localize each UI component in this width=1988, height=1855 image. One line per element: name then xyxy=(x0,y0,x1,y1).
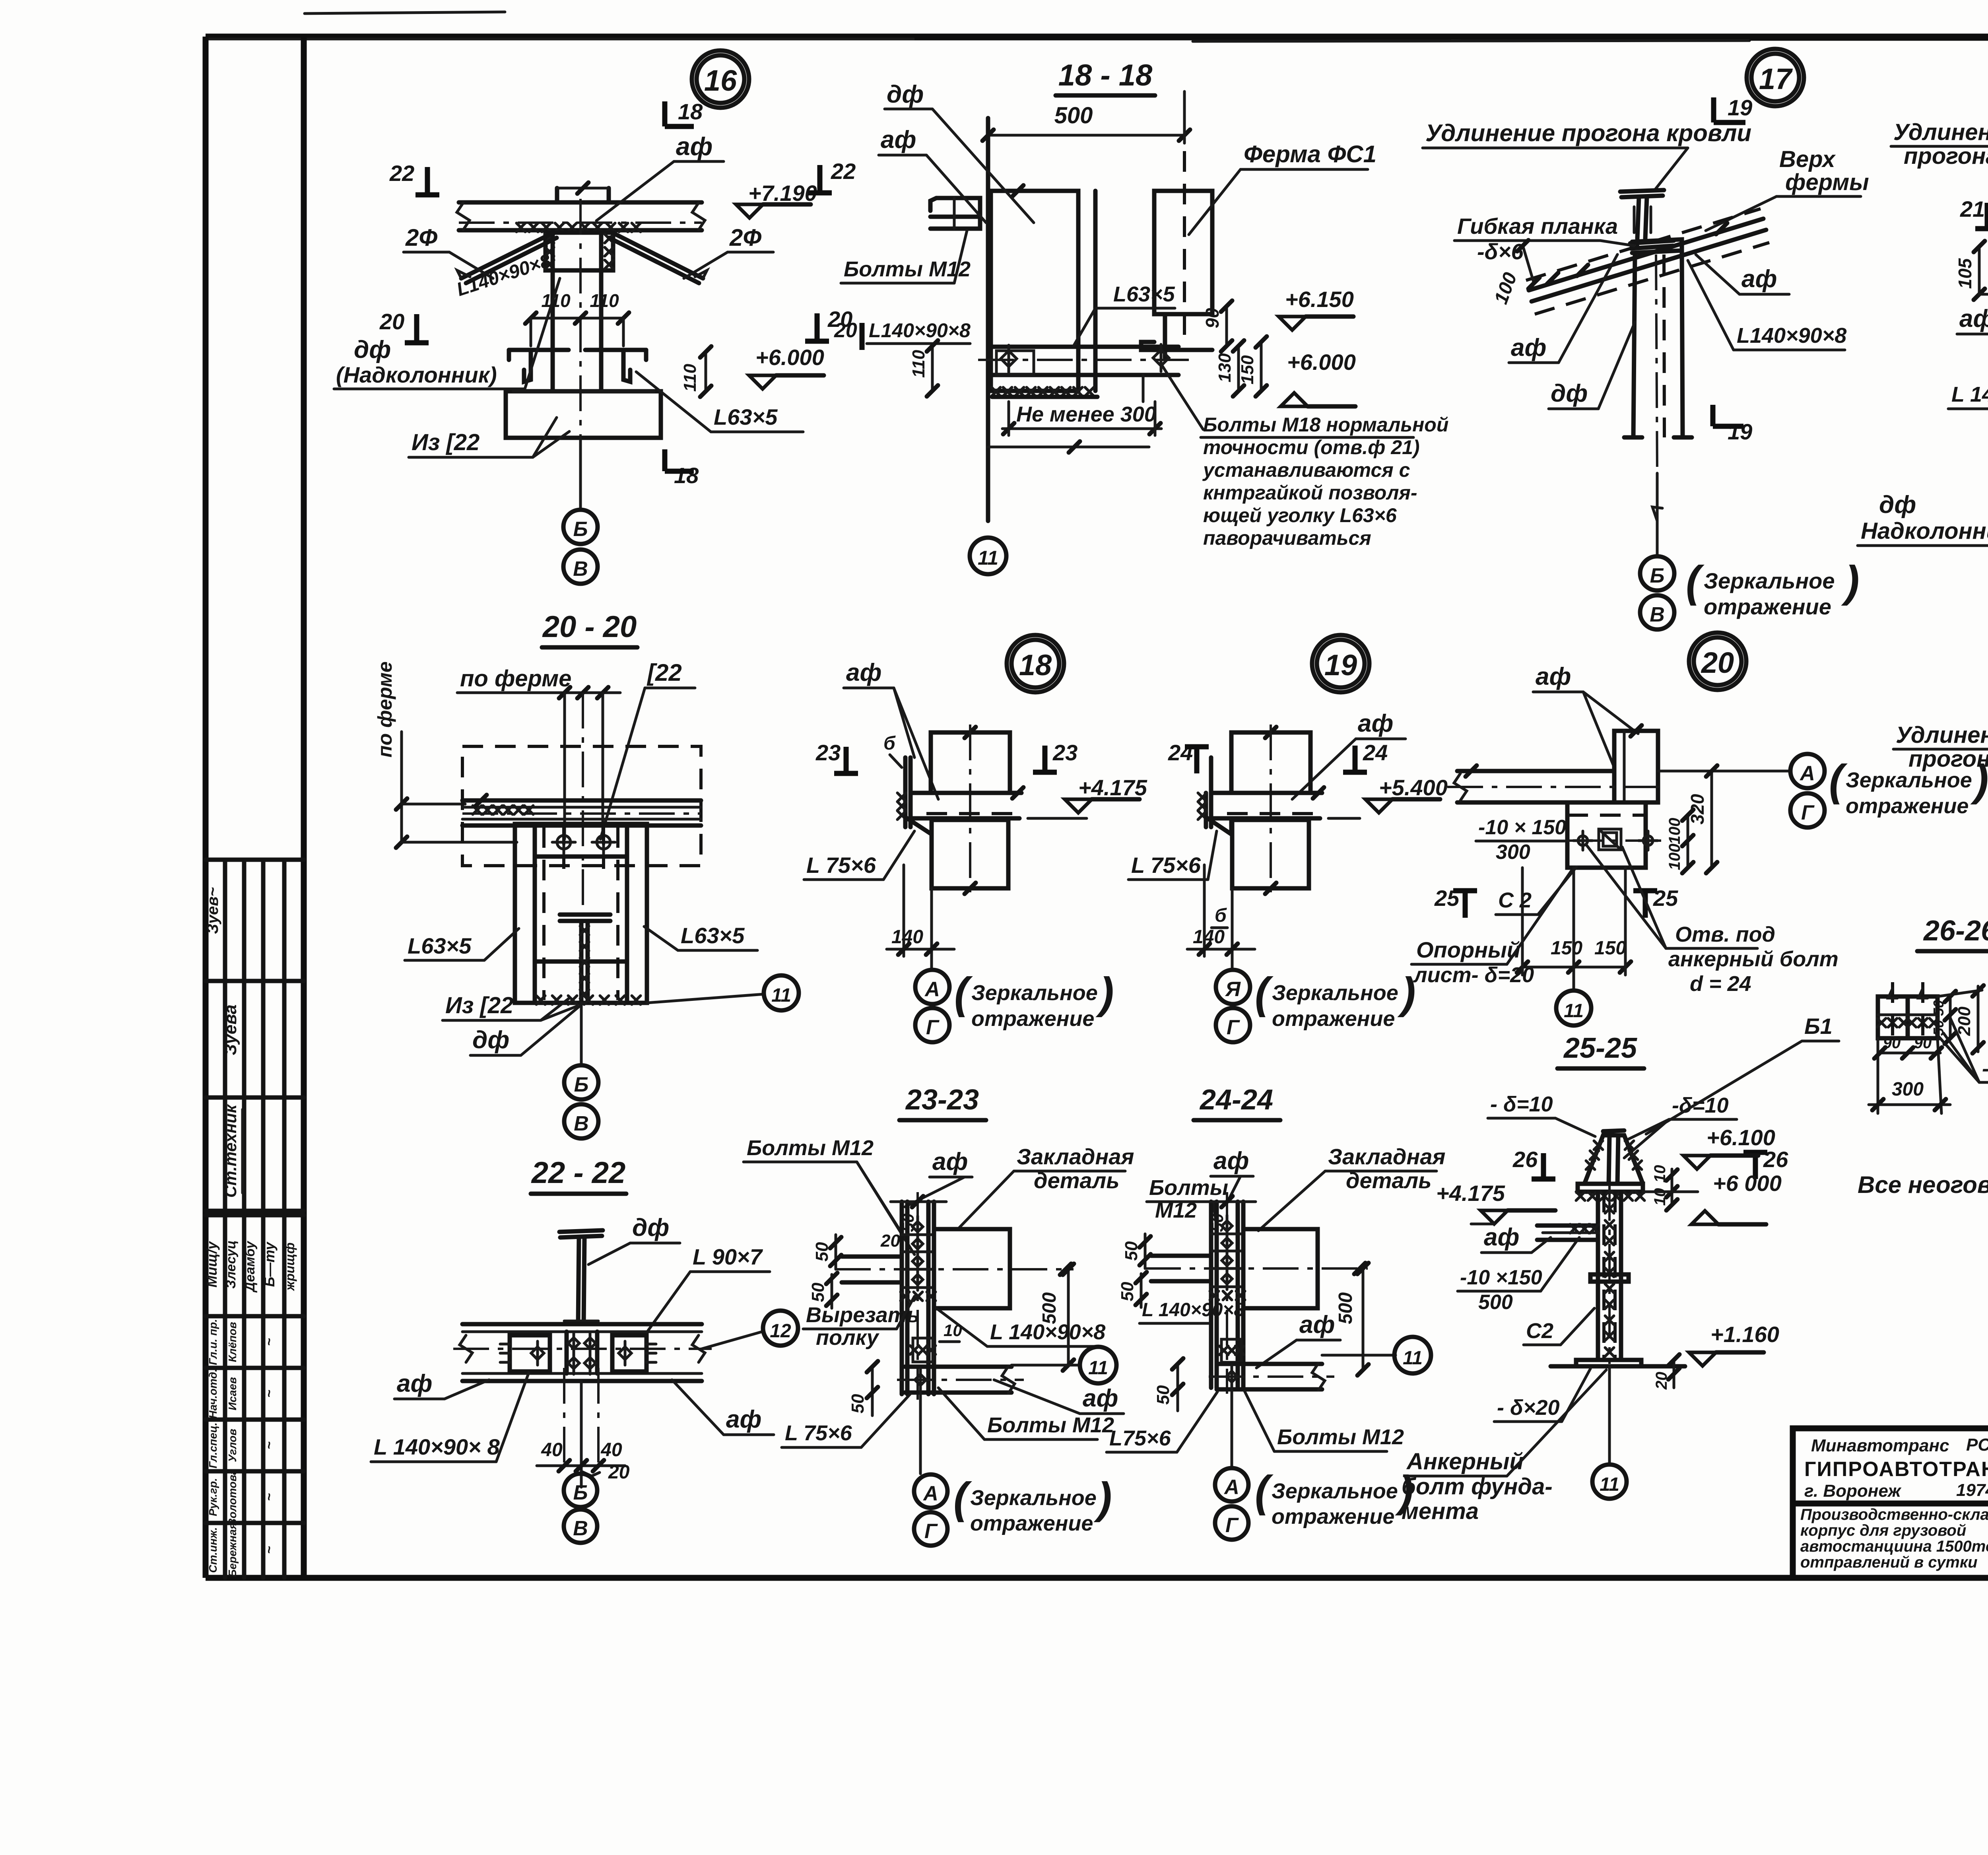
svg-text:дф: дф xyxy=(354,336,391,363)
svg-text:11: 11 xyxy=(1403,1348,1423,1369)
svg-text:Гл.спец.: Гл.спец. xyxy=(207,1422,219,1468)
svg-text:20 - 20: 20 - 20 xyxy=(542,610,637,644)
svg-text:~: ~ xyxy=(262,1441,277,1449)
svg-text:лист- δ=20: лист- δ=20 xyxy=(1413,963,1534,987)
node 19 thin plate xyxy=(1204,793,1208,827)
node 18 beam xyxy=(911,791,1021,795)
svg-text:23: 23 xyxy=(815,740,841,765)
node 20 circle 11 xyxy=(1573,868,1575,990)
svg-text:Закладная: Закладная xyxy=(1328,1144,1445,1169)
svg-text:Клёпов: Клёпов xyxy=(226,1322,239,1362)
svg-text:Болты: Болты xyxy=(1149,1176,1228,1200)
23-23 beam from left xyxy=(842,1255,902,1259)
svg-text:Бережная: Бережная xyxy=(226,1523,239,1577)
svg-text:11: 11 xyxy=(978,547,998,569)
25-25 gusset trapezoid xyxy=(1584,1135,1643,1184)
svg-text:отражение: отражение xyxy=(1704,594,1831,619)
node 20 beam left xyxy=(1457,769,1614,773)
node 16 diagonal braces xyxy=(461,233,553,278)
svg-text:Ст.инж.: Ст.инж. xyxy=(207,1527,219,1573)
svg-text:фермы: фермы xyxy=(1785,169,1869,195)
svg-text:11: 11 xyxy=(1600,1474,1619,1495)
svg-text:Удлинение: Удлинение xyxy=(1893,119,1988,145)
svg-text:22: 22 xyxy=(389,161,414,186)
20-20 channel bracket xyxy=(515,824,647,1003)
24-24 column xyxy=(1209,1202,1213,1388)
node 16 angle seats L63x5 xyxy=(509,348,569,352)
node 16 pedestal xyxy=(506,391,661,438)
svg-text:50: 50 xyxy=(848,1394,868,1413)
svg-text:Г: Г xyxy=(1225,1514,1239,1537)
svg-text:дф: дф xyxy=(887,81,924,108)
node 19 beam xyxy=(1211,791,1322,795)
23-23 column plates bolts xyxy=(902,1233,934,1236)
18-18 top hook bracket xyxy=(930,198,980,229)
svg-text:500: 500 xyxy=(1478,1291,1513,1314)
svg-text:отражение: отражение xyxy=(1272,1505,1394,1529)
20-20 chord plates band xyxy=(462,798,701,803)
25-25 bearing plate xyxy=(1578,1184,1643,1192)
svg-text:22: 22 xyxy=(831,159,856,184)
svg-text:Производственно-складской: Производственно-складской xyxy=(1800,1506,1988,1523)
24-24 bottom angle weld xyxy=(1221,1339,1241,1362)
svg-text:110: 110 xyxy=(680,363,700,392)
svg-text:18: 18 xyxy=(678,99,703,124)
scan noise top edge xyxy=(914,35,1451,41)
svg-text:А: А xyxy=(922,1482,938,1505)
svg-text:Б—ту: Б—ту xyxy=(261,1241,278,1287)
svg-text:50: 50 xyxy=(1930,1000,1947,1016)
svg-text:Зуев~: Зуев~ xyxy=(204,887,221,934)
svg-text:устанавливаются с: устанавливаются с xyxy=(1202,459,1410,481)
svg-text:~: ~ xyxy=(262,1546,277,1554)
25-25 circle 11 xyxy=(1608,1366,1611,1464)
svg-text:150: 150 xyxy=(1551,938,1582,959)
svg-text:500: 500 xyxy=(1039,1292,1060,1324)
22-22 circle 12 xyxy=(702,1331,763,1349)
svg-text:L 140×90× 8: L 140×90× 8 xyxy=(374,1434,500,1459)
18-18 bottom seat xyxy=(992,345,1178,349)
22-22 axis circles xyxy=(564,1474,597,1507)
23-23 bottom beam stub xyxy=(905,1365,1011,1369)
svg-text:Исаев: Исаев xyxy=(226,1377,239,1410)
svg-text:+6.100: +6.100 xyxy=(1706,1125,1775,1150)
svg-text:Нач.отд.: Нач.отд. xyxy=(207,1369,219,1419)
svg-text:Отв. под: Отв. под xyxy=(1675,923,1775,946)
24-24 axis circles A G xyxy=(1231,1389,1233,1467)
svg-text:40: 40 xyxy=(541,1439,563,1461)
svg-text:аф: аф xyxy=(1741,265,1777,293)
svg-text:11: 11 xyxy=(1088,1358,1108,1379)
svg-text:11: 11 xyxy=(771,985,791,1006)
svg-text:[22: [22 xyxy=(646,659,682,686)
svg-text:корпус для грузовой: корпус для грузовой xyxy=(1800,1522,1966,1539)
svg-text:+6.000: +6.000 xyxy=(1287,350,1356,375)
svg-text:+6.150: +6.150 xyxy=(1285,287,1354,312)
svg-text:19: 19 xyxy=(1324,649,1357,682)
svg-text:Деамбу: Деамбу xyxy=(243,1240,258,1293)
svg-text:точности (отв.ф 21): точности (отв.ф 21) xyxy=(1203,436,1420,458)
svg-text:40: 40 xyxy=(600,1439,622,1461)
svg-text:L 140×90×8: L 140×90×8 xyxy=(1951,383,1988,406)
svg-text:Опорный: Опорный xyxy=(1416,937,1520,962)
svg-text:11: 11 xyxy=(1564,1000,1584,1022)
svg-text:L75×6: L75×6 xyxy=(1109,1426,1171,1450)
svg-text:L 90×7: L 90×7 xyxy=(693,1244,763,1269)
node 19 column lower xyxy=(1232,820,1309,888)
svg-text:26-26: 26-26 xyxy=(1923,915,1988,947)
svg-text:L63×5: L63×5 xyxy=(714,404,778,429)
svg-text:отражение: отражение xyxy=(1272,1007,1395,1031)
svg-text:Болты М12: Болты М12 xyxy=(747,1136,874,1160)
node 19 axis circles A G xyxy=(1231,956,1234,970)
svg-text:В: В xyxy=(573,1517,588,1540)
svg-text:19: 19 xyxy=(1728,419,1752,444)
26-26 plates xyxy=(1878,996,1938,1038)
svg-text:+4.175: +4.175 xyxy=(1078,775,1147,800)
node 18 axis circles A G xyxy=(930,956,933,970)
svg-text:Гл.и. пр.: Гл.и. пр. xyxy=(207,1319,219,1365)
svg-text:жрищф: жрищф xyxy=(283,1243,297,1292)
svg-text:~: ~ xyxy=(262,1390,277,1398)
left stamp strip table xyxy=(206,858,304,862)
svg-text:105: 105 xyxy=(1955,258,1975,289)
node 16 column stub above beam xyxy=(555,188,559,202)
node 20 corner plate xyxy=(1567,802,1646,868)
svg-text:Г: Г xyxy=(1227,1016,1240,1039)
node 17 bubble xyxy=(1747,49,1804,106)
svg-text:Болты M12: Болты M12 xyxy=(987,1413,1114,1437)
24-24 bottom beam stub xyxy=(1217,1362,1322,1366)
svg-text:аф: аф xyxy=(1083,1385,1118,1412)
18-18 truss FS1 xyxy=(1154,191,1212,314)
svg-text:Зеркальное: Зеркальное xyxy=(1846,768,1972,792)
22-22 T stub above xyxy=(559,1230,603,1232)
svg-text:Все неоговоренные швы: Все неоговоренные швы xyxy=(1858,1171,1988,1198)
svg-text:2Ф: 2Ф xyxy=(405,224,437,251)
26-26 dims right 50 50 200 xyxy=(1949,996,1952,1038)
svg-text:+6.000: +6.000 xyxy=(755,345,824,370)
svg-text:А: А xyxy=(1223,1476,1239,1499)
svg-text:Минавтотранс: Минавтотранс xyxy=(1811,1436,1949,1455)
stamp strip inner column lines xyxy=(223,860,227,1578)
svg-text:18: 18 xyxy=(674,463,699,488)
svg-text:С2: С2 xyxy=(1526,1319,1553,1343)
svg-text:Болты M12: Болты M12 xyxy=(844,257,971,281)
svg-text:26: 26 xyxy=(1512,1147,1538,1172)
svg-text:Зеркальное: Зеркальное xyxy=(1704,568,1835,593)
22-22 clip angles xyxy=(510,1335,550,1371)
svg-text:Анкерный: Анкерный xyxy=(1406,1449,1524,1474)
node 18 bubble xyxy=(1007,635,1064,692)
20-20 axis circles xyxy=(580,1003,583,1065)
23-23 axis circles A G xyxy=(919,1393,922,1474)
svg-text:С 2: С 2 xyxy=(1498,888,1532,912)
24-24 beam from left xyxy=(1151,1254,1211,1258)
svg-text:отправлений в сутки: отправлений в сутки xyxy=(1800,1554,1978,1571)
svg-text:Не менее 300: Не менее 300 xyxy=(1016,402,1156,426)
svg-text:300: 300 xyxy=(1496,841,1530,864)
svg-text:24: 24 xyxy=(1363,740,1388,765)
svg-text:Б: Б xyxy=(573,518,588,541)
svg-text:по ферме: по ферме xyxy=(374,661,396,758)
svg-text:аф: аф xyxy=(1536,663,1571,690)
svg-text:б: б xyxy=(1215,905,1227,926)
svg-text:500: 500 xyxy=(1054,103,1093,128)
svg-text:20: 20 xyxy=(608,1462,630,1483)
svg-text:А: А xyxy=(924,978,940,1001)
svg-text:Удлинение: Удлинение xyxy=(1896,722,1988,748)
svg-text:Зеркальное: Зеркальное xyxy=(1272,1479,1398,1503)
svg-text:20: 20 xyxy=(880,1231,900,1251)
svg-text:50: 50 xyxy=(812,1242,832,1261)
svg-text:L 75×6: L 75×6 xyxy=(1131,853,1201,878)
svg-text:Б: Б xyxy=(1650,564,1665,587)
svg-text:мента: мента xyxy=(1402,1498,1479,1524)
svg-text:90: 90 xyxy=(1883,1034,1901,1052)
node 20 axis circles A G right xyxy=(1658,770,1789,773)
svg-text:19: 19 xyxy=(1728,95,1752,120)
svg-text:~: ~ xyxy=(262,1493,277,1501)
25-25 mid clamp xyxy=(1590,1274,1629,1282)
23-23 embedded plate rect xyxy=(934,1229,1010,1308)
18-18 axis circle 11 xyxy=(970,538,1006,574)
svg-text:10: 10 xyxy=(944,1321,962,1340)
svg-text:+6 000: +6 000 xyxy=(1713,1171,1782,1196)
svg-text:L 140×90×8: L 140×90×8 xyxy=(1142,1299,1244,1321)
svg-text:Углов: Углов xyxy=(226,1429,239,1462)
svg-text:Мищ/у: Мищ/у xyxy=(204,1241,220,1288)
svg-text:Зуева: Зуева xyxy=(221,1004,240,1055)
node 19 column upper xyxy=(1231,732,1310,793)
svg-text:130: 130 xyxy=(1215,353,1235,383)
svg-text:аф: аф xyxy=(846,659,881,686)
svg-text:А: А xyxy=(1799,762,1815,785)
node 18 column upper xyxy=(931,732,1010,793)
svg-text:Закладная: Закладная xyxy=(1017,1144,1134,1169)
svg-text:90: 90 xyxy=(1914,1034,1932,1052)
node 17 purlin stub I-beam xyxy=(1620,190,1664,192)
svg-text:L140×90×8: L140×90×8 xyxy=(1737,324,1846,348)
svg-text:24: 24 xyxy=(1168,740,1193,765)
svg-text:аф: аф xyxy=(1213,1147,1249,1175)
node 16 axis circles xyxy=(579,438,582,510)
svg-text:18 - 18: 18 - 18 xyxy=(1058,58,1153,92)
svg-text:Золотова: Золотова xyxy=(226,1469,239,1526)
svg-text:12: 12 xyxy=(770,1321,791,1342)
20-20 inner T beam section xyxy=(560,913,610,917)
svg-text:150: 150 xyxy=(1238,355,1257,385)
25-25 af bracket xyxy=(1537,1224,1598,1228)
svg-text:Я: Я xyxy=(1225,978,1241,1001)
svg-text:отражение: отражение xyxy=(970,1511,1093,1535)
18-18 column web xyxy=(986,118,990,521)
svg-text:17: 17 xyxy=(1759,62,1793,95)
20-20 dashed chord outline xyxy=(462,746,701,866)
svg-text:20: 20 xyxy=(379,309,404,334)
20-20 circle 11 xyxy=(647,994,764,1003)
svg-text:320: 320 xyxy=(1687,794,1708,824)
svg-text:Удлинение прогона кровли: Удлинение прогона кровли xyxy=(1425,120,1751,146)
svg-text:отражение: отражение xyxy=(971,1007,1094,1031)
svg-text:Зеркальное: Зеркальное xyxy=(970,1486,1097,1510)
25-25 base plate xyxy=(1576,1360,1641,1366)
svg-text:аф: аф xyxy=(932,1148,968,1175)
node 17 axis circles B V xyxy=(1656,473,1659,556)
24-24 column plates bolts xyxy=(1211,1233,1243,1235)
svg-text:23-23: 23-23 xyxy=(905,1084,979,1116)
svg-text:аф: аф xyxy=(676,132,712,161)
svg-text:Г: Г xyxy=(924,1520,938,1543)
svg-text:Болты М12: Болты М12 xyxy=(1277,1425,1404,1449)
svg-text:+1.160: +1.160 xyxy=(1710,1322,1779,1347)
node 20 bubble xyxy=(1689,633,1746,690)
node 17 inclined top chord xyxy=(1529,219,1763,290)
svg-text:+7.190: +7.190 xyxy=(748,181,817,206)
node 18 thin plate xyxy=(903,758,908,827)
svg-text:Г: Г xyxy=(926,1016,940,1039)
svg-text:24-24: 24-24 xyxy=(1199,1084,1273,1116)
svg-text:паворачиваться: паворачиваться xyxy=(1203,527,1371,549)
svg-text:Рук.гр.: Рук.гр. xyxy=(207,1478,219,1516)
svg-text:Зеркальное: Зеркальное xyxy=(971,981,1098,1005)
23-23 circle 11 xyxy=(1011,1364,1081,1367)
svg-text:анкерный болт: анкерный болт xyxy=(1668,947,1839,971)
svg-text:Из [22: Из [22 xyxy=(445,993,513,1018)
svg-text:РСФСР: РСФСР xyxy=(1966,1435,1988,1455)
svg-text:по ферме: по ферме xyxy=(460,666,571,691)
svg-text:150: 150 xyxy=(1594,938,1626,959)
svg-text:Ферма ФС1: Ферма ФС1 xyxy=(1244,141,1376,167)
node 16 dim 110 right xyxy=(705,352,707,391)
svg-text:- δ×10: - δ×10 xyxy=(1982,1057,1988,1080)
svg-text:аф: аф xyxy=(1299,1311,1335,1338)
svg-text:аф: аф xyxy=(881,126,916,153)
svg-text:болт фунда-: болт фунда- xyxy=(1402,1474,1553,1500)
svg-text:L 75×6: L 75×6 xyxy=(785,1421,852,1445)
svg-text:Злесуц: Злесуц xyxy=(223,1240,239,1289)
24-24 embedded plate rect xyxy=(1243,1229,1318,1308)
svg-text:300: 300 xyxy=(1892,1079,1924,1100)
svg-text:22 - 22: 22 - 22 xyxy=(531,1156,626,1190)
node 20 anchor bolt box xyxy=(1599,829,1621,850)
svg-text:20: 20 xyxy=(834,319,857,342)
svg-text:25-25: 25-25 xyxy=(1563,1032,1637,1064)
25-25 anchor bolt column xyxy=(1596,1192,1600,1360)
svg-text:Б: Б xyxy=(573,1481,588,1504)
svg-text:Б1: Б1 xyxy=(1804,1014,1833,1039)
svg-text:дф: дф xyxy=(632,1214,669,1241)
svg-text:кнтргайкой позволя-: кнтргайкой позволя- xyxy=(1203,482,1417,504)
svg-text:В: В xyxy=(574,1112,589,1135)
svg-text:Зеркальное: Зеркальное xyxy=(1272,981,1398,1005)
svg-text:Надколонник: Надколонник xyxy=(1861,518,1988,544)
svg-text:Верх: Верх xyxy=(1779,146,1836,172)
node 19 bubble xyxy=(1312,635,1369,692)
svg-text:500: 500 xyxy=(1335,1292,1356,1324)
svg-text:18: 18 xyxy=(1019,649,1052,682)
svg-text:б: б xyxy=(883,733,896,754)
svg-text:Г: Г xyxy=(1801,801,1815,824)
svg-text:автостанциина 1500тонн: автостанциина 1500тонн xyxy=(1800,1538,1988,1555)
node 16 column xyxy=(551,233,555,391)
svg-text:110: 110 xyxy=(590,290,619,311)
svg-text:1974г: 1974г xyxy=(1956,1480,1988,1500)
svg-text:Гибкая планка: Гибкая планка xyxy=(1457,214,1618,239)
title block xyxy=(1793,1428,1988,1578)
svg-text:L63×5: L63×5 xyxy=(408,933,472,958)
svg-text:ГИПРОАВТОТРАНС: ГИПРОАВТОТРАНС xyxy=(1804,1458,1988,1481)
svg-text:L63×5: L63×5 xyxy=(681,923,745,948)
svg-text:дф: дф xyxy=(1551,380,1588,407)
svg-text:- δ=10: - δ=10 xyxy=(1490,1092,1553,1116)
node 16 bubble xyxy=(692,51,749,108)
svg-text:-10 × 150: -10 × 150 xyxy=(1478,816,1566,839)
node 17 flexible plate xyxy=(1632,239,1682,253)
node 17 column xyxy=(1633,254,1635,437)
svg-text:Ст.техник: Ст.техник xyxy=(221,1104,240,1198)
23-23 bottom angle weld xyxy=(913,1338,933,1362)
svg-text:110: 110 xyxy=(909,350,928,378)
26-26 dims bottom 90 90 300 xyxy=(1877,1038,1879,1113)
svg-text:2Ф: 2Ф xyxy=(729,224,761,251)
svg-text:дф: дф xyxy=(472,1026,509,1054)
svg-text:аф: аф xyxy=(1959,305,1988,332)
svg-text:-10 ×150: -10 ×150 xyxy=(1460,1266,1542,1289)
svg-text:20: 20 xyxy=(1701,646,1734,679)
svg-text:В: В xyxy=(1650,603,1665,626)
svg-text:+5.400: +5.400 xyxy=(1379,775,1448,800)
node 16 roof beam xyxy=(459,200,702,205)
svg-text:~: ~ xyxy=(262,1338,277,1346)
svg-text:23: 23 xyxy=(1052,740,1077,765)
svg-text:16: 16 xyxy=(704,64,737,97)
node 18 column lower xyxy=(932,820,1008,888)
svg-text:(Надколонник): (Надколонник) xyxy=(336,362,497,387)
22-22 beam xyxy=(462,1322,702,1327)
svg-text:Вырезать: Вырезать xyxy=(806,1303,920,1327)
svg-text:аф: аф xyxy=(1511,334,1546,361)
svg-text:аф: аф xyxy=(1484,1224,1519,1251)
svg-text:50: 50 xyxy=(1122,1241,1141,1261)
svg-text:+4.175: +4.175 xyxy=(1436,1181,1505,1206)
svg-text:В: В xyxy=(573,557,588,581)
svg-text:г. Воронеж: г. Воронеж xyxy=(1804,1481,1902,1501)
svg-text:дф: дф xyxy=(1879,491,1916,519)
22-22 dims 40 40 20 xyxy=(563,1368,565,1471)
node 20 column xyxy=(1614,731,1658,802)
23-23 column xyxy=(900,1202,904,1394)
svg-text:Болты М18 нормальной: Болты М18 нормальной xyxy=(1203,414,1448,436)
svg-text:ющей уголку L63×6: ющей уголку L63×6 xyxy=(1203,504,1397,526)
svg-text:21: 21 xyxy=(1960,196,1985,221)
svg-text:отражение: отражение xyxy=(1846,794,1969,818)
svg-text:L140×90×8: L140×90×8 xyxy=(869,319,971,342)
sheet frame xyxy=(206,34,1988,40)
svg-text:d = 24: d = 24 xyxy=(1690,972,1751,996)
svg-text:аф: аф xyxy=(726,1406,761,1433)
svg-text:- δ×20: - δ×20 xyxy=(1497,1396,1560,1420)
svg-text:L 75×6: L 75×6 xyxy=(806,853,876,878)
svg-text:аф: аф xyxy=(397,1370,432,1397)
svg-text:аф: аф xyxy=(1358,710,1393,737)
svg-text:Б: Б xyxy=(574,1073,589,1096)
24-24 circle 11 xyxy=(1322,1354,1396,1357)
svg-text:Из [22: Из [22 xyxy=(412,429,480,455)
node 16 top plate xyxy=(546,233,613,270)
svg-text:L63×5: L63×5 xyxy=(1113,282,1175,306)
svg-text:L 140×90×8: L 140×90×8 xyxy=(990,1320,1105,1344)
